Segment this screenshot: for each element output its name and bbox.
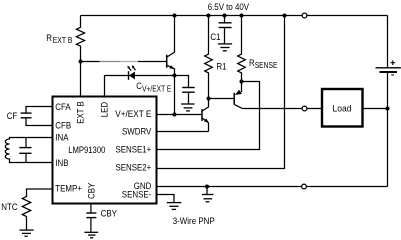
transistor Q2 NPN [202, 99, 209, 132]
node Q1 collector at rail [173, 14, 177, 18]
svg-text:V+/EXT E: V+/EXT E [115, 109, 151, 119]
ground at GND rail [202, 187, 214, 202]
node R1/Q2 collector/Q3 base junction [207, 97, 211, 101]
wire SENSE2+ to top rail [157, 16, 285, 169]
LED D1 [127, 65, 135, 80]
capacitor C1 [224, 16, 226, 23]
svg-text:SENSE1+: SENSE1+ [116, 145, 152, 155]
node R1 at rail [207, 14, 211, 18]
terminal circle top rail [302, 13, 307, 18]
resistor RSENSE [238, 16, 246, 82]
svg-text:CBY: CBY [101, 209, 117, 219]
svg-text:R: R [46, 33, 52, 43]
node junction EXT B net [79, 60, 83, 64]
wire SENSE- to ground [157, 195, 175, 203]
node Q1 emitter junction [173, 74, 177, 78]
wire EXT B to Q1 base (partly gray) [81, 61, 100, 63]
node ground junction [205, 185, 209, 189]
svg-text:SENSE: SENSE [255, 61, 278, 70]
capacitor across sensor [25, 138, 27, 148]
svg-text:SENSE-: SENSE- [122, 189, 152, 199]
svg-text:3-Wire PNP: 3-Wire PNP [173, 216, 215, 226]
battery BT1 [376, 16, 401, 187]
node SENSE2+ at rail [283, 14, 287, 18]
svg-text:CF: CF [7, 111, 18, 121]
capacitor CV+/EXT E [175, 76, 189, 88]
svg-text:R1: R1 [216, 61, 226, 71]
svg-text:EXT B: EXT B [75, 101, 85, 124]
svg-text:TEMP+: TEMP+ [55, 184, 82, 194]
wire load to battery [363, 108, 388, 110]
node C1 at rail [223, 14, 227, 18]
svg-text:6.5V to 40V: 6.5V to 40V [208, 2, 250, 12]
svg-text:INA: INA [55, 133, 69, 143]
wire RSENSE sense tap to SENSE1+ [157, 82, 260, 150]
node RSENSE at rail [240, 14, 244, 18]
transistor Q1 NPN [167, 16, 175, 76]
svg-text:LED: LED [99, 102, 109, 118]
svg-text:NTC: NTC [1, 202, 18, 212]
capacitor CBY [90, 204, 92, 214]
resistor R1 [205, 16, 213, 99]
svg-text:CFA: CFA [55, 102, 71, 112]
wire emitter node down to V+/EXT E pin [174, 76, 176, 115]
terminal circle load wire [302, 106, 307, 111]
svg-text:EXT B: EXT B [53, 36, 73, 45]
thermistor NTC [22, 189, 52, 230]
node 3-Wire PNP label [173, 216, 215, 226]
svg-text:INB: INB [55, 158, 68, 168]
terminal circle bottom rail [302, 184, 307, 189]
sensor coil on INA/INB [5, 138, 52, 163]
wire top supply rail [81, 15, 388, 17]
svg-text:CFB: CFB [55, 121, 71, 131]
svg-text:V+/EXT E: V+/EXT E [142, 84, 171, 93]
wire bottom GND rail [157, 186, 388, 188]
svg-text:SENSE2+: SENSE2+ [116, 163, 152, 173]
IC U1 LMP91300 [53, 97, 157, 204]
node RSENSE bottom / Q3 emitter junction [240, 80, 244, 84]
svg-text:Load: Load [333, 104, 352, 114]
wire V+/EXT E pin to Q2 base [157, 114, 202, 116]
load box [322, 89, 363, 127]
wire Q2 emitter to SWDRV pin [157, 131, 209, 133]
wire LED pin to emitter node [105, 76, 175, 97]
svg-text:LMP91300: LMP91300 [68, 145, 105, 155]
ground below C1 [218, 44, 232, 51]
wire Q3 base [209, 98, 235, 100]
capacitor CF [26, 107, 53, 114]
transistor Q3 PNP [234, 82, 322, 109]
svg-text:C1: C1 [210, 32, 220, 42]
ground below CV+/EXT E [181, 104, 194, 111]
node battery/load junction [386, 107, 390, 111]
ground at SENSE- [167, 203, 182, 210]
node 6.5V to 40V label [208, 2, 250, 12]
svg-text:SWDRV: SWDRV [122, 127, 152, 137]
svg-text:CBY: CBY [87, 183, 97, 199]
resistor REXT B [76, 16, 84, 97]
node V+/EXT E junction [173, 113, 177, 117]
